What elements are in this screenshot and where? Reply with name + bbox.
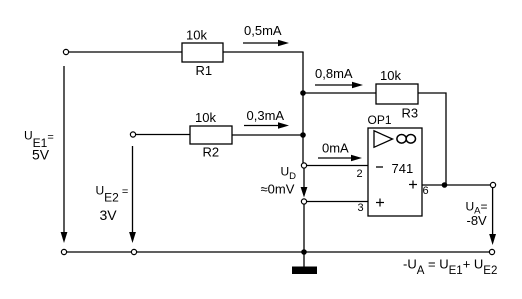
wire pin3 node to ground rail xyxy=(303,204,305,252)
node E1 input terminal xyxy=(63,49,68,54)
junction to R3 branch xyxy=(300,90,306,96)
plus sign output polarity xyxy=(409,181,417,189)
wire ground rail xyxy=(64,251,492,253)
infinity gain symbol xyxy=(397,135,416,144)
svg-text:OP1: OP1 xyxy=(368,113,392,127)
wire xyxy=(136,134,190,136)
svg-text:0,5mA: 0,5mA xyxy=(244,23,282,38)
voltage arrow U_E1 xyxy=(61,66,68,243)
svg-text:10k: 10k xyxy=(380,68,401,83)
wire xyxy=(232,134,303,136)
svg-text:0,3mA: 0,3mA xyxy=(247,108,285,123)
svg-text:10k: 10k xyxy=(195,110,216,125)
wire xyxy=(307,165,368,167)
node bottom terminal E2 xyxy=(131,249,136,254)
junction ground tap xyxy=(301,249,307,255)
svg-text:3V: 3V xyxy=(100,207,118,223)
current arrow 0mA xyxy=(318,141,362,162)
svg-text:-8V: -8V xyxy=(467,213,488,228)
node bottom terminal E1 xyxy=(61,249,66,254)
wire feedback xyxy=(418,93,446,185)
svg-text:741: 741 xyxy=(392,161,414,176)
wire xyxy=(307,201,368,203)
wire xyxy=(223,51,304,53)
svg-text:2: 2 xyxy=(357,168,363,180)
node output terminal xyxy=(490,182,495,187)
op-amp OP1 box xyxy=(368,128,422,216)
node bottom terminal output xyxy=(489,249,494,254)
wire xyxy=(303,92,376,94)
voltage arrow U_D xyxy=(301,169,308,198)
wire xyxy=(69,51,182,53)
svg-text:3: 3 xyxy=(358,202,364,214)
voltage arrow U_A xyxy=(489,188,496,245)
node inverting input pin 2 xyxy=(301,163,306,168)
resistor R2 xyxy=(190,126,232,144)
svg-text:-UA = UE1+ UE2: -UA = UE1+ UE2 xyxy=(403,257,497,278)
svg-text:UD: UD xyxy=(281,165,297,183)
svg-text:R2: R2 xyxy=(203,145,220,160)
wire output xyxy=(422,184,490,186)
junction feedback/output xyxy=(442,182,448,188)
svg-text:10k: 10k xyxy=(186,28,207,43)
node E2 input terminal xyxy=(130,132,135,137)
wire summing node vertical xyxy=(302,52,304,164)
voltage arrow U_E2 xyxy=(129,146,136,243)
svg-text:≈0mV: ≈0mV xyxy=(261,182,295,197)
current arrow 0,8mA xyxy=(315,66,363,88)
svg-text:0,8mA: 0,8mA xyxy=(315,66,353,81)
svg-text:5V: 5V xyxy=(32,147,50,163)
resistor R3 xyxy=(376,84,418,104)
current arrow 0,5mA xyxy=(243,23,289,46)
svg-text:0mA: 0mA xyxy=(322,141,349,156)
svg-text:UE2 =: UE2 = xyxy=(96,184,129,205)
plus sign non-inverting input xyxy=(376,199,384,207)
svg-text:6: 6 xyxy=(423,185,429,197)
junction R2 into summing node xyxy=(300,132,306,138)
svg-text:R3: R3 xyxy=(402,106,419,121)
minus sign inverting input xyxy=(376,166,383,168)
svg-text:R1: R1 xyxy=(196,63,213,78)
current arrow 0,3mA xyxy=(244,108,289,129)
op-amp triangle symbol xyxy=(374,131,393,148)
node non-inverting input pin 3 xyxy=(301,199,306,204)
resistor R1 xyxy=(182,43,223,62)
ground xyxy=(292,252,317,274)
